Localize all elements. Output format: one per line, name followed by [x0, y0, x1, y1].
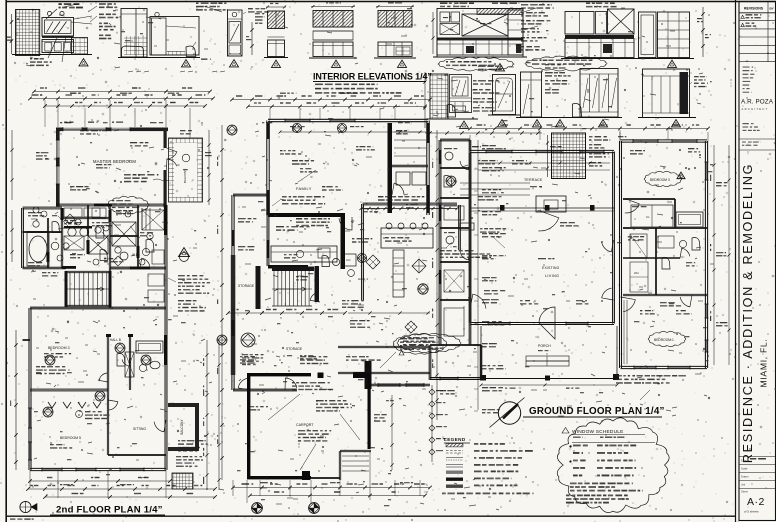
elevation marker triangle 13 — [498, 120, 507, 127]
elevation E9 soffit X panel — [462, 14, 508, 36]
living door arc — [538, 211, 559, 231]
svg-text:W.I.C.: W.I.C. — [132, 253, 141, 257]
master bedroom windows top wall — [63, 127, 82, 131]
note leaders above E1 — [46, 9, 57, 19]
kitchen counters — [271, 246, 337, 262]
E8 ground line — [374, 57, 416, 59]
porch steps — [526, 356, 569, 361]
right wing windows — [633, 139, 658, 141]
left plan right rooms walls — [108, 268, 110, 308]
bath band extra fixtures — [52, 221, 60, 232]
master bedroom left windows — [56, 140, 60, 158]
family room new wall dark jamb — [388, 123, 393, 168]
elevation E6 upper tile band — [268, 11, 285, 29]
middle plan storage walls upper — [231, 195, 233, 390]
terrace interior dim lines — [478, 162, 610, 164]
svg-text:BEDROOM 3: BEDROOM 3 — [650, 178, 670, 182]
kitchen island U counter — [381, 228, 433, 248]
svg-text:A.R. POZA: A.R. POZA — [741, 99, 774, 106]
elevation E11 door — [639, 12, 657, 58]
elevation E10 counter — [565, 35, 634, 38]
print footer text — [10, 518, 34, 519]
svg-text:STORAGE: STORAGE — [286, 347, 303, 351]
elevation E9 counter band — [437, 38, 523, 40]
svg-text:WH: WH — [634, 271, 639, 275]
elevation marker triangle 3 — [230, 60, 239, 67]
ground plan right wing outer walls — [621, 139, 708, 141]
elevation R2 toilet — [573, 104, 582, 118]
elevation E1 knobs — [47, 11, 51, 15]
laundry room — [396, 172, 410, 185]
carport leader lines — [268, 394, 300, 420]
R3 ground line — [638, 117, 696, 119]
E10 cloud note DOUBLE OVEN — [525, 56, 607, 71]
left margin small dims — [11, 130, 13, 200]
note THE SAME — [201, 59, 211, 60]
balcony label — [182, 154, 190, 162]
svg-text:HALL B: HALL B — [110, 338, 121, 342]
right wing side notes — [716, 182, 728, 186]
notes left column x520 — [521, 4, 554, 9]
ground plan top extension lines — [469, 135, 471, 151]
elevation E1 sill band — [42, 36, 74, 38]
legend row 5 new masonry wall — [446, 471, 463, 474]
bedroom4 door arc — [625, 199, 639, 213]
interior elevations subnote — [315, 84, 402, 94]
bath band leader lines — [58, 216, 70, 228]
bottom bedroom windows — [42, 467, 62, 469]
elevation E10 base cabinets — [565, 39, 634, 58]
vertical dim far right elevations — [702, 7, 704, 57]
living interior door arcs — [602, 240, 614, 252]
svg-text:Scale: Scale — [741, 467, 748, 471]
right of balcony dim chain — [208, 130, 210, 205]
service notes — [444, 148, 457, 149]
left plan left dim column — [15, 330, 17, 470]
balcony right of master bedroom — [169, 138, 203, 202]
middle right vertical dim texts — [432, 159, 433, 168]
elevation E9 hatch band top — [477, 9, 523, 15]
bath circled markers — [63, 243, 69, 249]
elevation E9 kitchen outer — [437, 9, 523, 58]
elevation R1 wardrobe — [521, 72, 542, 117]
elevation E10 soffit X panel — [608, 9, 635, 34]
left plan middle bath band walls — [23, 206, 63, 208]
dim chain between carport and legend — [431, 385, 433, 462]
porch posts — [480, 375, 486, 381]
elevation marker triangle 6 — [398, 60, 407, 67]
annotation column right of left plan — [178, 275, 210, 294]
elevation marker triangle 7 — [496, 64, 505, 71]
new kitchen cabinet dim strip — [361, 208, 457, 210]
wing middle walls — [623, 257, 680, 259]
entry bump fireplace — [536, 196, 566, 212]
legend footnote — [442, 493, 534, 495]
svg-text:HALL 1: HALL 1 — [358, 277, 368, 281]
family room extra notes — [292, 160, 314, 165]
stair right wall — [315, 266, 320, 302]
elevation marker triangle 1 — [79, 59, 88, 66]
carport interior notes — [292, 382, 333, 390]
bedroom3 notes — [36, 366, 66, 374]
E7 ground line — [309, 57, 357, 59]
lower band door arcs — [99, 373, 108, 382]
terrace columns — [500, 205, 505, 211]
svg-text:REVISIONS: REVISIONS — [744, 7, 764, 11]
elevation marker triangle 8 — [668, 60, 677, 67]
carport extension lines to dims — [246, 480, 248, 503]
notes right of R3 toilet accessories — [694, 76, 708, 87]
master bedroom balcony door gap — [163, 148, 167, 170]
window schedule rows — [573, 445, 588, 447]
hall1 door arcs — [339, 217, 352, 230]
bath notes — [42, 272, 58, 277]
window schedule leader column — [477, 140, 479, 410]
elevation E1 window — [42, 18, 74, 37]
hall interior notes — [352, 238, 372, 243]
service door arcs — [460, 160, 470, 170]
legend row 7 new conc wall — [446, 485, 463, 488]
extra annotation clusters — [80, 130, 101, 135]
middle plan stairs horizontal — [256, 266, 261, 309]
svg-text:TERRACE: TERRACE — [524, 178, 543, 182]
mid dim row under stairs — [228, 312, 345, 314]
large diamond marker storage — [241, 333, 255, 347]
svg-text:BEDROOM 3: BEDROOM 3 — [48, 346, 70, 350]
revision entry 1 — [741, 15, 745, 18]
E6 top dim — [266, 6, 286, 8]
title block bottom table — [739, 456, 776, 458]
elevation marker triangle 9 — [556, 120, 565, 127]
elevation S1 shower tile grid — [552, 133, 586, 179]
revision entry 2 — [741, 23, 745, 26]
bath band scribbles — [28, 212, 44, 216]
bottom diamond markers middle — [252, 503, 263, 514]
svg-text:CL: CL — [646, 215, 650, 219]
svg-text:RESIDENCE · ADDITION & REMODEL: RESIDENCE · ADDITION & REMODELING — [741, 163, 755, 463]
terrace edge line — [470, 207, 614, 209]
carport corner steps — [342, 455, 369, 457]
storage lower walls — [233, 388, 297, 390]
sheet border frame — [6, 1, 776, 3]
elevation E7 base cabinets — [313, 42, 353, 57]
elevation E2 tub profile — [122, 46, 144, 57]
balcony french doors — [167, 148, 177, 159]
lower bath fixtures dense — [117, 354, 125, 367]
elevation marker triangle 5 — [332, 60, 341, 67]
kitchen annotation cluster mid — [473, 80, 499, 85]
svg-text:WINDOW SCHEDULE: WINDOW SCHEDULE — [572, 429, 624, 435]
elevation B1 mirror — [450, 75, 472, 113]
bath tub room — [676, 212, 703, 227]
elevation E10 upper cabinets — [565, 12, 594, 35]
family room top windows — [285, 118, 310, 120]
ground plan top dim row — [470, 128, 708, 130]
wing middle band fixtures — [630, 234, 647, 258]
svg-text:PORCH: PORCH — [538, 344, 551, 348]
middle-right dim column — [436, 130, 438, 420]
revisions table — [739, 12, 776, 14]
svg-text:LIVING: LIVING — [545, 274, 559, 278]
E9 ground line — [433, 56, 527, 58]
left plan master bedroom walls — [56, 128, 168, 132]
living room right wall — [612, 152, 614, 324]
sitting door arcs — [108, 400, 118, 410]
E11 ground line — [634, 58, 694, 60]
bedroom1 door arc — [621, 297, 636, 312]
ground plan bottom-left rooms — [428, 345, 430, 380]
pantry walls — [390, 164, 428, 166]
left plan bottom rooms walls — [28, 390, 30, 470]
leader to E2 — [88, 6, 97, 12]
elevation E1 ground line — [12, 54, 92, 56]
hall closet rects left plan — [148, 274, 164, 286]
terrace leader dim lines — [460, 182, 530, 184]
planter hatch block bottom — [172, 473, 193, 489]
family room dark wall jambs — [267, 190, 270, 215]
elevation E1 tile wall grid — [16, 10, 40, 56]
left plan top dim texts — [70, 93, 81, 94]
bath band density boost walls — [46, 218, 48, 268]
svg-text:FAMILY: FAMILY — [296, 186, 312, 191]
elevation E9 right tall cabinet — [508, 10, 523, 55]
kitchen diamond markers — [366, 255, 380, 269]
E7 top dim — [311, 6, 355, 8]
elevation E8 base cabinets — [378, 42, 412, 57]
E6 left notes — [255, 13, 264, 24]
elevation E9 upper left boxes — [440, 12, 450, 22]
between plans diamond markers — [227, 125, 237, 135]
elevation marker triangle 2 — [182, 60, 191, 67]
elevation E7 upper tile band — [313, 11, 353, 28]
2nd floor extension lines to dims — [57, 470, 59, 498]
elevation marker triangle 13b — [533, 120, 542, 127]
left plan bottom dim rows — [30, 480, 170, 482]
E8 top dim — [376, 6, 414, 8]
rework note cloud — [393, 334, 446, 354]
porch outline — [480, 326, 482, 379]
roofing note cloud above baths — [107, 196, 149, 213]
svg-text:INTERIOR ELEVATIONS 1/4”: INTERIOR ELEVATIONS 1/4” — [313, 72, 432, 82]
kitchen window bump — [460, 223, 474, 230]
kitchen cabinet strip vertical — [393, 250, 404, 297]
family window markers — [292, 123, 301, 132]
seal note lines — [739, 138, 776, 140]
elevation E6 mid shelf line — [268, 36, 285, 38]
AC closet — [344, 254, 356, 266]
svg-text:STORAGE: STORAGE — [238, 284, 255, 288]
left plan interior diamond markers — [45, 355, 55, 365]
lower hall walls — [338, 345, 430, 347]
elevation E2 tall closet panels — [121, 9, 147, 58]
family room notes — [282, 196, 325, 205]
carport bottom right wall — [340, 449, 371, 451]
window schedule notes — [570, 483, 643, 492]
svg-text:A/C: A/C — [346, 258, 351, 262]
bath fixtures center dense — [68, 228, 76, 236]
svg-text:BALCONY: BALCONY — [183, 169, 187, 183]
notes above E4 E5 — [196, 3, 228, 11]
living south wall — [470, 322, 614, 324]
upper closet fixtures — [64, 208, 82, 217]
lower band dark jambs — [106, 334, 111, 337]
legend row 4 new wood stud wall — [446, 464, 463, 466]
elevation E2-E3 ground line — [118, 57, 200, 59]
bottom dim extension lines — [259, 480, 261, 496]
E9 left dim — [432, 12, 434, 54]
bath tub left oval — [29, 236, 47, 262]
north arrow compass — [498, 402, 520, 424]
notes right of R1 — [545, 64, 566, 69]
notes above E9 — [440, 3, 474, 8]
elevation marker triangle 11 — [672, 120, 681, 127]
middle plan kitchen dark walls — [268, 213, 345, 217]
svg-text:LEGEND: LEGEND — [444, 437, 466, 442]
middle plan bottom dim rows — [233, 487, 430, 489]
elevation E3 toilet profile — [186, 46, 196, 57]
bedroom4 triangle marker — [677, 172, 685, 179]
title block frame — [739, 2, 776, 521]
family interior dim marks — [280, 131, 420, 133]
elevation marker triangle 12 — [460, 121, 469, 128]
left plan stairs horizontal run — [65, 271, 68, 307]
elevation E3 baseboard tiles — [167, 52, 185, 56]
wing hall door arcs — [680, 295, 692, 307]
note PULL OUT under E1 — [30, 58, 52, 66]
living left wall thick — [469, 153, 472, 323]
wing closet shelf lines — [623, 300, 625, 364]
S1 left dim — [547, 135, 549, 177]
ground plan left service rooms — [440, 138, 470, 140]
master bedroom note cluster — [124, 174, 158, 182]
note text right of E1 — [99, 3, 117, 8]
wing band extra scribs — [660, 302, 681, 307]
E10 ground line — [561, 58, 640, 60]
plant shelf note — [85, 411, 110, 419]
elevation B2 door — [493, 75, 516, 115]
notes above E11 — [586, 3, 617, 8]
legend row 6 new partition wall — [446, 478, 463, 481]
window schedule header — [573, 437, 583, 438]
legend row 1 existing wall — [446, 444, 463, 447]
lower hall notes — [346, 356, 381, 361]
kitchen right notes — [440, 250, 491, 258]
kitchen pass wall — [268, 265, 308, 269]
window schedule cloud outline — [557, 418, 669, 513]
service column dark jambs — [439, 150, 442, 164]
dim chain x392 — [391, 395, 393, 470]
balcony notes — [176, 456, 202, 467]
clutter marks layer — [31, 122, 212, 478]
balcony bump walls — [168, 403, 199, 407]
living notes — [480, 228, 508, 233]
window schedule row bullets — [570, 446, 572, 448]
architect firm info block — [743, 67, 755, 93]
vertical dim column right of E5 — [251, 22, 253, 55]
middle plan family room walls — [268, 118, 428, 120]
elevation E2 tile patch — [124, 36, 147, 55]
elevation marker triangle 4 — [272, 60, 281, 67]
dinette bay windows — [365, 361, 372, 389]
elevation B1 bath tile wall — [430, 74, 448, 119]
chevron break marks — [48, 402, 56, 408]
svg-text:Job: Job — [741, 483, 746, 487]
svg-text:of 5 sheets: of 5 sheets — [744, 510, 759, 514]
dim column between plans — [221, 125, 223, 480]
svg-text:Drawn: Drawn — [741, 475, 749, 479]
bath band dark jambs — [61, 208, 64, 220]
notes right of E9 leaders — [524, 8, 536, 12]
svg-text:Sheet: Sheet — [741, 490, 748, 494]
elevation marker triangle 10 — [599, 120, 608, 127]
B1 ground line — [426, 118, 478, 120]
svg-text:MIAMI, FL.: MIAMI, FL. — [759, 338, 769, 387]
left plan top dimension rows — [34, 91, 210, 93]
notes right of S1 — [589, 136, 610, 141]
elevation E8 upper tile band — [378, 11, 412, 28]
stairs arrow — [70, 287, 104, 291]
svg-text:BEDROOM 5: BEDROOM 5 — [60, 436, 81, 440]
left dim of bath row — [424, 72, 426, 128]
dim row under kitchen notes — [425, 132, 542, 134]
svg-text:EXISTING: EXISTING — [542, 266, 560, 270]
svg-text:2nd FLOOR PLAN 1/4”: 2nd FLOOR PLAN 1/4” — [56, 505, 163, 516]
bedroom1 bottom room — [648, 331, 686, 346]
elevation E5 tall cabinet mirror — [228, 10, 243, 56]
E9 HOOD FAN labels — [480, 23, 491, 24]
bottom-left cloud note — [397, 333, 461, 352]
notes above B2 — [478, 66, 502, 71]
elevation B1 sink toilet — [447, 105, 456, 118]
ground plan note right bottom — [616, 375, 686, 384]
svg-text:BALCONY: BALCONY — [180, 419, 184, 435]
svg-text:GROUND FLOOR PLAN 1/4”: GROUND FLOOR PLAN 1/4” — [529, 406, 665, 417]
bedroom4 closet band — [623, 197, 675, 199]
elevation E3 blank wall and door — [150, 17, 199, 56]
left plan lower band walls — [30, 306, 66, 308]
elevation E1 side tile — [72, 38, 88, 55]
bath band markers — [41, 211, 47, 217]
notes right of E5 — [248, 8, 268, 13]
service fixtures — [445, 152, 453, 160]
ground plan main top wall — [470, 149, 614, 151]
elevation E1 left dim — [11, 14, 13, 54]
note text above E1 — [59, 3, 83, 8]
svg-text:ARCHITECT: ARCHITECT — [742, 107, 769, 111]
elevation E7 mid band — [313, 30, 353, 32]
elevation E11 shelving — [658, 12, 690, 58]
svg-text:BEDROOM 1: BEDROOM 1 — [654, 338, 674, 342]
left plan bottom circled marker — [20, 501, 31, 512]
storage column marks — [238, 218, 256, 223]
elevation R2 mirrors — [580, 69, 618, 118]
elevation E1 base cabinets — [42, 40, 74, 53]
storage lower notes — [300, 356, 328, 364]
middle stairs arrow — [276, 287, 306, 291]
E9 second cloud note — [438, 57, 514, 71]
carport walls dark — [247, 373, 311, 376]
E6 ground line — [264, 57, 288, 59]
elevation E6 base cabinets — [268, 40, 285, 57]
living entry semicircle door — [539, 307, 555, 339]
hall bath fixtures right of stairs — [322, 255, 330, 266]
small triangle under cloud — [399, 351, 404, 356]
left plan right dim columns — [206, 340, 208, 490]
svg-text:A·2: A·2 — [747, 496, 765, 508]
new kitchen walls — [361, 204, 363, 300]
legend row 2 walls above — [446, 450, 463, 452]
R1 R2 ground line — [516, 117, 622, 119]
